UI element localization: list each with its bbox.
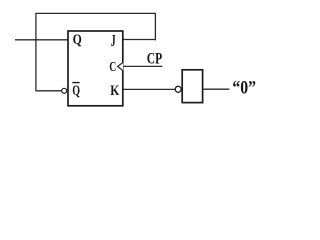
svg-text:J: J	[111, 31, 116, 50]
svg-text:K: K	[110, 83, 120, 99]
svg-text:CP: CP	[147, 50, 162, 67]
svg-text:C: C	[109, 60, 116, 75]
svg-text:“0”: “0”	[232, 78, 256, 99]
svg-text:Q: Q	[72, 83, 80, 99]
svg-text:Q: Q	[73, 32, 82, 48]
